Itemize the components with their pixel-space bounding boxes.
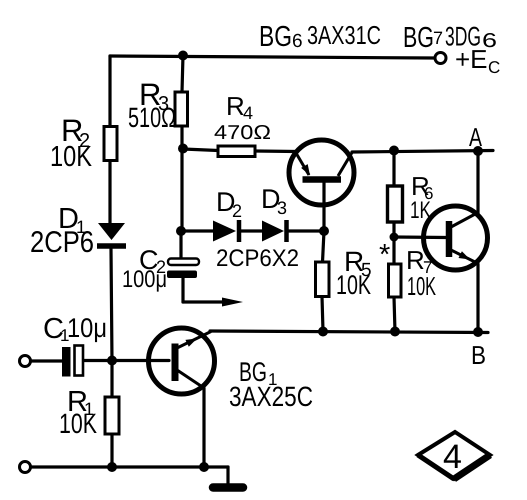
- label R4 470ohm: [214, 91, 271, 144]
- svg-text:1K: 1K: [410, 197, 431, 224]
- wire R5 bottom lead: [322, 297, 323, 332]
- diode D3: [262, 220, 287, 242]
- node D2 C2: [176, 226, 186, 236]
- wire input to C1: [31, 359, 62, 362]
- svg-text:2CP6: 2CP6: [30, 226, 94, 259]
- svg-text:BG: BG: [403, 22, 434, 54]
- svg-text:6: 6: [292, 31, 303, 52]
- wire D2-D3 segment: [241, 229, 262, 232]
- svg-text:10K: 10K: [336, 270, 371, 300]
- diode D1: [97, 223, 126, 246]
- svg-text:2CP6X2: 2CP6X2: [216, 245, 299, 272]
- capacitor C1: [62, 346, 83, 377]
- resistor R2: [104, 127, 117, 161]
- wire R6 bottom / R7 top: [392, 222, 395, 264]
- resistor R3: [175, 92, 188, 126]
- resistor R1: [105, 397, 119, 434]
- wire ground stub: [226, 467, 229, 484]
- svg-text:+E: +E: [455, 44, 488, 74]
- wire R2 branch top lead: [108, 56, 111, 127]
- node R6 R7 base: [390, 233, 399, 242]
- terminal +Ec: [435, 53, 446, 64]
- svg-text:3AX31C: 3AX31C: [307, 20, 381, 50]
- node R3 R4: [178, 144, 188, 154]
- svg-text:10K: 10K: [59, 408, 97, 439]
- label R6 1K: [410, 171, 433, 224]
- wire C2 bottom lead: [181, 278, 184, 302]
- label D1 2CP6: [30, 203, 94, 259]
- wire C1 to BG1 base: [83, 359, 169, 362]
- wire R1 top lead: [110, 361, 113, 397]
- svg-text:3: 3: [277, 198, 287, 218]
- wire D1 to input junction: [111, 249, 112, 361]
- svg-text:R: R: [226, 91, 245, 121]
- transistor BG1: [149, 328, 215, 394]
- label BG1 3AX25C: [229, 357, 313, 412]
- resistor R7: [389, 264, 402, 297]
- svg-text:BG: BG: [259, 21, 292, 53]
- transistor BG6: [289, 140, 354, 205]
- svg-text:4: 4: [243, 103, 253, 123]
- wire A to BG7 collector: [476, 151, 479, 213]
- node R1 bottom rail: [107, 462, 117, 472]
- label BG6 3AX31C: [259, 20, 381, 53]
- svg-text:100μ: 100μ: [122, 266, 167, 293]
- wire R5 top lead: [323, 231, 325, 262]
- wire BG1 emitter down: [202, 388, 205, 467]
- svg-text:A: A: [469, 122, 482, 152]
- diode D2: [213, 220, 239, 242]
- wire BG7 emitter down: [476, 264, 479, 333]
- ground: [213, 483, 243, 492]
- svg-text:10K: 10K: [407, 271, 436, 301]
- label R2 10K: [50, 113, 93, 173]
- badge diamond 4: [418, 432, 490, 479]
- node A rail R6: [389, 146, 399, 156]
- label R5 10K: [336, 246, 372, 300]
- wire BG6 base lead: [322, 182, 325, 231]
- svg-text:10K: 10K: [50, 141, 93, 173]
- wire top rail: [110, 56, 434, 58]
- wire R3 top lead: [182, 55, 183, 92]
- node D3 base R5: [319, 226, 329, 236]
- node BG1 emitter rail: [199, 462, 209, 472]
- label C2 100u: [122, 245, 167, 293]
- svg-text:470Ω: 470Ω: [214, 122, 271, 144]
- wire R4 left lead: [183, 149, 218, 151]
- label R3 510ohm: [128, 77, 176, 133]
- node top rail R3: [178, 51, 188, 61]
- arrow after C2: [222, 298, 243, 307]
- transistor BG7: [424, 206, 488, 270]
- svg-text:*: *: [379, 239, 390, 271]
- svg-text:C: C: [488, 58, 500, 77]
- node A: [473, 146, 483, 156]
- resistor R6: [388, 186, 403, 222]
- svg-text:B: B: [471, 340, 486, 370]
- wire C2 arrow line: [183, 300, 226, 303]
- node C1 base: [107, 356, 117, 366]
- svg-text:510Ω: 510Ω: [128, 102, 176, 133]
- wire R7 bottom lead: [394, 297, 395, 332]
- wire C2 top lead: [179, 231, 182, 259]
- svg-text:2: 2: [232, 201, 242, 221]
- terminal input bottom: [20, 462, 31, 473]
- node R7 B rail: [390, 327, 400, 337]
- wire B rail: [210, 331, 488, 333]
- node R5 B rail: [318, 327, 328, 337]
- wire R3 bottom to D2 row: [180, 126, 183, 231]
- svg-text:7: 7: [433, 28, 443, 48]
- label R7 10K: [406, 245, 436, 301]
- label C1 10u: [43, 313, 107, 345]
- wire bottom rail: [31, 465, 228, 468]
- resistor R5: [316, 262, 330, 297]
- node B: [473, 327, 483, 337]
- terminal input top: [20, 356, 31, 367]
- wire R6 top lead: [392, 151, 395, 187]
- label D3: [261, 184, 287, 218]
- wire R4 to BG6 emitter: [255, 149, 296, 153]
- label +Ec: [455, 44, 500, 77]
- capacitor C2: [167, 259, 199, 279]
- label D2: [216, 187, 242, 221]
- svg-text:3AX25C: 3AX25C: [229, 381, 313, 412]
- wire R1 bottom lead: [110, 434, 113, 467]
- label R1 10K: [59, 386, 97, 439]
- wire D2 row segment 1: [181, 229, 213, 232]
- svg-text:4: 4: [443, 438, 462, 476]
- wire R2 to D1: [108, 160, 111, 223]
- label BG7 3DG6: [403, 22, 497, 55]
- resistor R4: [218, 146, 255, 157]
- wire A rail: [352, 151, 493, 153]
- svg-text:10μ: 10μ: [67, 313, 107, 343]
- wire BG7 base: [394, 235, 446, 239]
- wire D3 to node: [289, 229, 324, 232]
